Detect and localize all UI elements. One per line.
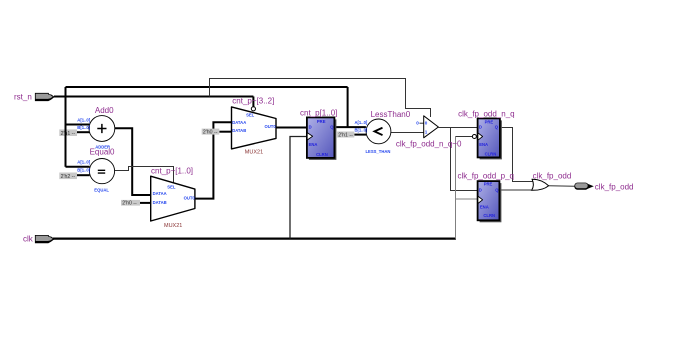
svg-text:1: 1 [425,129,428,134]
svg-text:B[1..0]: B[1..0] [77,167,90,172]
svg-text:clk_fp_odd_n_q: clk_fp_odd_n_q [458,109,514,118]
svg-text:clk_fp_odd_p_q: clk_fp_odd_p_q [458,172,515,181]
svg-text:0: 0 [425,120,428,125]
svg-text:LESS_THAN: LESS_THAN [366,149,391,154]
svg-text:B[1..0]: B[1..0] [355,127,368,132]
svg-text:OUT0: OUT0 [184,196,196,201]
svg-text:clk: clk [23,235,34,244]
svg-text:SEL: SEL [167,184,176,189]
svg-text:LessThan0: LessThan0 [371,110,411,119]
svg-text:CLRN: CLRN [483,213,495,218]
svg-text:PRE: PRE [485,120,494,125]
svg-text:MUX21: MUX21 [245,150,263,156]
svg-text:D: D [309,125,312,130]
svg-text:cnt_p~[3..2]: cnt_p~[3..2] [232,96,274,105]
svg-text:2'h1 --: 2'h1 -- [61,131,76,137]
svg-text:2'h0 --: 2'h0 -- [122,201,137,207]
svg-text:DATAA: DATAA [153,191,167,196]
svg-text:clk_fp_odd_n_q~0: clk_fp_odd_n_q~0 [396,139,462,148]
svg-text:D: D [479,125,482,130]
svg-text:ENA: ENA [480,205,489,210]
svg-text:A[1..0]: A[1..0] [77,117,90,122]
svg-text:A[1..0]: A[1..0] [77,159,90,164]
svg-text:2'h0 --: 2'h0 -- [203,130,218,136]
svg-text:D: D [479,188,482,193]
svg-text:SEL: SEL [246,113,255,118]
svg-text:2'h2 --: 2'h2 -- [61,174,76,180]
svg-text:MUX21: MUX21 [164,223,182,229]
svg-text:2'h1 --: 2'h1 -- [338,132,353,138]
svg-text:EQUAL: EQUAL [94,188,109,193]
svg-text:B[1..0]: B[1..0] [77,125,90,130]
svg-text:0: 0 [416,121,419,126]
svg-text:Add0: Add0 [95,106,114,115]
svg-text:DATAA: DATAA [232,120,246,125]
svg-text:clk_fp_odd: clk_fp_odd [595,182,634,191]
svg-text:clk_fp_odd: clk_fp_odd [533,172,572,181]
svg-text:CLRN: CLRN [316,152,328,157]
svg-text:DATAB: DATAB [153,200,167,205]
svg-text:ENA: ENA [479,142,488,147]
svg-text:cnt_p~[1..0]: cnt_p~[1..0] [151,166,193,175]
svg-text:CLRN: CLRN [485,152,497,157]
svg-text:ENA: ENA [309,142,318,147]
svg-text:A[1..0]: A[1..0] [355,120,368,125]
svg-text:ADDER: ADDER [95,145,110,150]
svg-text:cnt_p[1..0]: cnt_p[1..0] [300,109,337,118]
svg-text:OUT0: OUT0 [265,124,277,129]
svg-text:DATAB: DATAB [232,128,246,133]
svg-text:rst_n: rst_n [14,92,32,101]
svg-text:PRE: PRE [484,182,493,187]
svg-text:PRE: PRE [317,119,326,124]
